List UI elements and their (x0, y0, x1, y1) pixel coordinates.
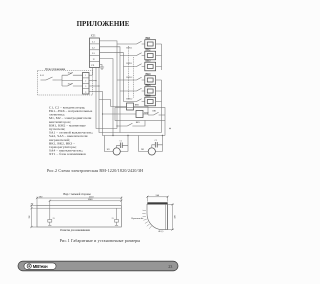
heater EK2 (145, 51, 156, 60)
svg-text:ЕК1: ЕК1 (146, 37, 152, 40)
motor M2 branch left (139, 136, 149, 152)
capacitor C1 (120, 143, 122, 149)
svg-text:ВК1: ВК1 (153, 111, 157, 113)
body rear view (37, 206, 121, 228)
contact KM2.1 to EK3 (124, 64, 145, 67)
logo mark ring (27, 264, 31, 268)
contact KM1.3 to EK4 (117, 77, 145, 80)
motor M2 branch right (155, 136, 162, 152)
dim ticks row2 (120, 200, 122, 202)
svg-text:1040: 1040 (88, 198, 94, 201)
svg-text:Рис.2 Схема электрическая ВМ-1: Рис.2 Схема электрическая ВМ-1220/1820/2… (47, 168, 143, 173)
dim ticks left (30, 204, 32, 228)
motor M1 branch left (104, 136, 113, 152)
panel terminal strip (83, 73, 90, 95)
side profile dim height (168, 204, 174, 229)
logo pill (24, 263, 56, 270)
wire L2 feed (100, 47, 121, 133)
junction dot (95, 80, 96, 81)
logo mark core (28, 265, 30, 267)
wire strip row3 (89, 85, 99, 87)
side profile back inner panel (165, 204, 167, 229)
svg-text:КМ2.1: КМ2.1 (127, 63, 133, 65)
motor M1 branch right (120, 136, 128, 152)
wire strip row2 (89, 80, 96, 82)
contact KM1.1 to EK1 (117, 41, 145, 44)
svg-text:13: 13 (112, 218, 114, 220)
svg-text:ЕК6: ЕК6 (146, 94, 152, 97)
side profile back edge (167, 204, 169, 229)
dim line 1310 (37, 197, 121, 199)
switch SA1 (41, 77, 57, 80)
bracket left (48, 208, 52, 225)
wire C2 leads (152, 145, 163, 148)
junction dot (116, 125, 117, 126)
side profile dim 240 (147, 196, 167, 202)
svg-text:ВК3: ВК3 (136, 122, 140, 124)
svg-text:С2: С2 (155, 140, 157, 142)
side profile body outline (147, 204, 168, 229)
svg-text:SA3: SA3 (68, 82, 72, 85)
junction dot (127, 135, 128, 136)
contact VK1 (148, 112, 162, 115)
wire XT1 down 3 (99, 68, 162, 133)
heater EK1 (145, 40, 156, 49)
svg-text:SA1: SA1 (40, 74, 44, 77)
dim line 1040 (50, 200, 122, 202)
svg-text:КМ2.2: КМ2.2 (127, 99, 133, 101)
svg-text:Пульт управления: Пульт управления (45, 68, 66, 71)
svg-text:ЕК2: ЕК2 (146, 48, 152, 51)
contactor coil KM1 (127, 103, 134, 110)
wire mid row (62, 80, 83, 82)
heater EK3 (145, 62, 156, 71)
svg-text:ХТ1 – блок клеммников: ХТ1 – блок клеммников (49, 152, 86, 156)
ground (100, 67, 104, 69)
svg-text:1: 1 (85, 75, 86, 77)
wire PE to ground (100, 65, 103, 68)
contact VK3 (117, 121, 145, 127)
svg-text:М2: М2 (141, 149, 144, 151)
legend text block (49, 105, 93, 156)
svg-text:Разметка для навешивания: Разметка для навешивания (60, 229, 90, 232)
svg-text:3: 3 (85, 86, 86, 88)
wire L1 feed (100, 41, 118, 129)
contact SA3 (62, 83, 83, 86)
dim ticks 240 (146, 196, 169, 198)
heater EK5 (145, 87, 156, 96)
wire strip row1 (89, 74, 93, 76)
svg-text:ХТ1: ХТ1 (91, 35, 96, 38)
linkage dashed KM2 (133, 57, 135, 98)
dim extension lines (37, 197, 121, 209)
contact KM1.2 to EK2 (120, 53, 145, 56)
wire C1 leads (117, 145, 128, 148)
bracket right (115, 208, 119, 225)
wire coil KM1 feed (99, 100, 127, 107)
side profile top bar (147, 202, 167, 204)
terminal labels L1 L2 L3 N PE (91, 40, 95, 67)
wire strip row4 (89, 90, 103, 92)
motor M2 (148, 148, 155, 155)
svg-text:ПРИЛОЖЕНИЕ: ПРИЛОЖЕНИЕ (77, 20, 130, 28)
wire L3 feed (100, 53, 124, 102)
top band line (37, 207, 121, 209)
linkage dashed KM1 (128, 46, 130, 100)
junction dot (162, 135, 163, 136)
svg-text:23: 23 (168, 264, 172, 269)
heater EK4 (145, 76, 156, 85)
dim left vertical (31, 206, 38, 228)
wire coil KM1 out (134, 107, 149, 116)
footer bar (18, 261, 178, 271)
wire N feed (100, 59, 114, 136)
svg-text:Вид с тыльной стороны: Вид с тыльной стороны (63, 193, 90, 196)
contact KM1.4 to EK6 (124, 99, 145, 102)
dim left ext 80 (32, 207, 38, 209)
strip cell numbers (85, 75, 86, 93)
wire XT1 down 2 (96, 68, 117, 129)
air ticks (142, 210, 151, 229)
contact KM2.2 to EK5 (120, 88, 145, 91)
junction dot (98, 85, 99, 86)
wire box out (162, 115, 166, 136)
thermostat box (115, 108, 165, 121)
contactor coil KM2 (136, 111, 143, 118)
svg-text:13: 13 (53, 218, 55, 220)
wire down 4 (103, 91, 166, 135)
capacitor C2 (155, 142, 157, 148)
svg-text:М1: М1 (107, 149, 110, 151)
contact SA2 (62, 73, 83, 76)
junction dot (169, 128, 170, 129)
svg-text:4: 4 (85, 91, 86, 93)
page background (0, 0, 200, 284)
wire coil KM2 feed (103, 113, 137, 115)
svg-text:КМ1.1: КМ1.1 (127, 47, 133, 49)
svg-text:ЕК3: ЕК3 (146, 59, 152, 62)
dim ticks row1 (36, 197, 123, 202)
wire SA1 out (56, 75, 62, 86)
wire XT1 down 1 (92, 68, 94, 76)
svg-text:ЕК5: ЕК5 (146, 84, 152, 87)
svg-text:МВтехн: МВтехн (33, 264, 48, 269)
control panel dashed box (38, 71, 93, 96)
dim ticks height (171, 203, 173, 231)
wire coil KM2 out (143, 113, 148, 115)
motor M1 (113, 148, 120, 155)
heater EK6 (145, 97, 156, 106)
svg-text:КМ2: КМ2 (144, 113, 148, 115)
svg-text:С1: С1 (120, 141, 122, 143)
svg-text:2: 2 (85, 81, 86, 83)
svg-text:ЕК4: ЕК4 (146, 73, 152, 76)
junction dot (102, 113, 103, 114)
svg-text:SA2: SA2 (68, 71, 72, 74)
svg-text:КМ1.2: КМ1.2 (127, 77, 133, 79)
bus EK right (156, 44, 162, 133)
junction dot (112, 135, 113, 136)
terminal block XT1 (90, 38, 100, 68)
svg-text:N: N (93, 58, 95, 61)
svg-text:Кронштейн: Кронштейн (132, 217, 144, 220)
svg-text:Рис.1 Габаритные и установочны: Рис.1 Габаритные и установочные размеры (60, 238, 141, 243)
